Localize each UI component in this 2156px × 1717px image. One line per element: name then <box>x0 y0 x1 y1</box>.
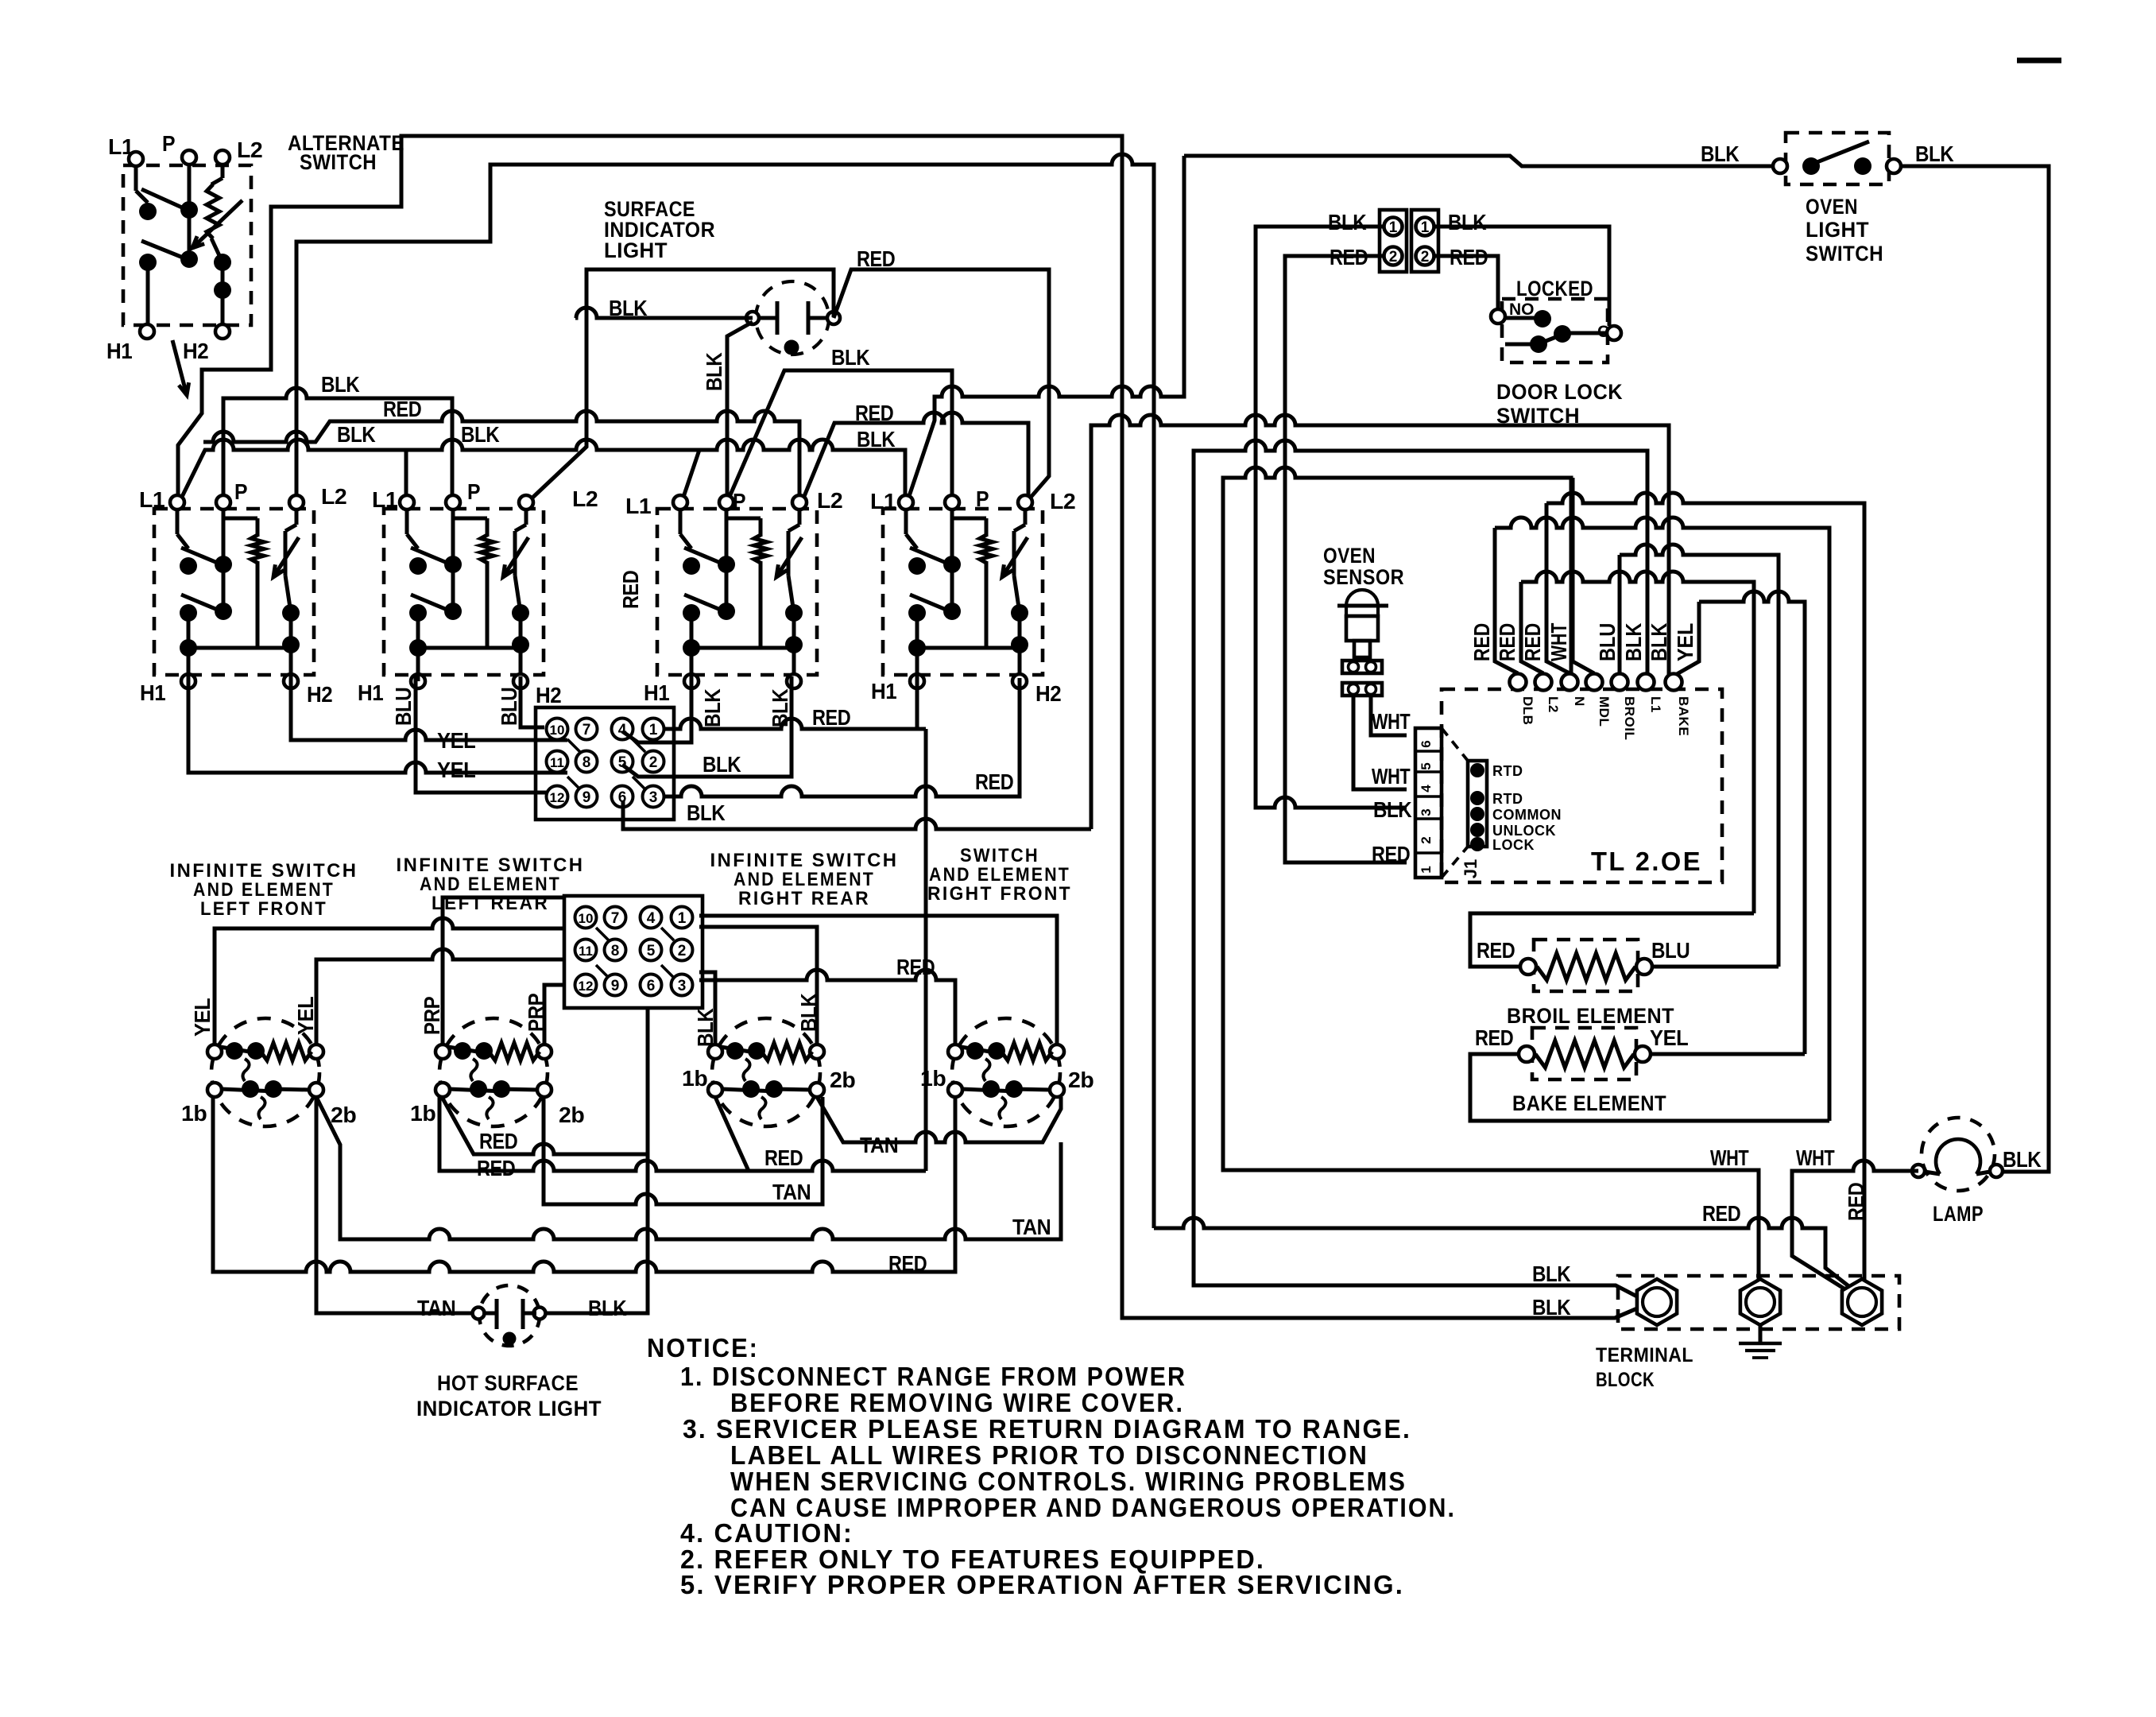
terminal C of S3 <box>1607 326 1621 340</box>
wire WHT row3 (board MDL pin to terminal block nut2) <box>1223 467 1759 1288</box>
wire L1 drop (SW2 (left rear surface switch)) <box>405 510 409 534</box>
wire H1 (SW2 (left rear surface switch)) <box>416 648 420 681</box>
svg-text:BEFORE REMOVING WIRE COVER.: BEFORE REMOVING WIRE COVER. <box>730 1388 1184 1417</box>
wire RED 1b bus (ISW2/ISW3 to H-net) <box>439 1097 926 1171</box>
contact dot a1 (SW-ALT) <box>139 203 157 220</box>
svg-text:RED: RED <box>1477 938 1515 963</box>
svg-text:BLU: BLU <box>1595 623 1620 661</box>
arrow pointing to surface switches <box>172 340 189 395</box>
svg-text:RED: RED <box>855 401 894 425</box>
terminal right of broil element <box>1636 959 1652 975</box>
svg-text:L1: L1 <box>625 494 651 518</box>
wire BLK J2A pin4 to H1 of SW3 <box>622 676 691 742</box>
switch blade of S3 <box>1534 334 1564 346</box>
bottom link2 (ISW3 (right rear)) <box>774 1089 811 1090</box>
svg-text:SWITCH: SWITCH <box>1806 242 1883 265</box>
svg-text:LOCK: LOCK <box>1492 837 1535 853</box>
wire resistor to H2 contact (SW-ALT) <box>211 238 223 262</box>
pin 1 of J2B <box>672 907 693 928</box>
svg-text:RED: RED <box>857 246 896 271</box>
connector J2 (surface switch harness upper) <box>536 707 674 820</box>
contact dot NC of S3 <box>1530 335 1547 353</box>
contact dot top2 (ISW3 (right rear)) <box>748 1042 765 1060</box>
thermal element (SW3 (right rear surface switch)) <box>787 531 791 576</box>
wire P drop (SW1 (left front surface switch)) <box>222 510 226 564</box>
wire TAN 2b bus (ISW1 to ISW4) <box>316 1097 1061 1239</box>
pin 2 of P1 left <box>1384 247 1403 265</box>
J1 strip pin LOCK <box>1470 837 1484 851</box>
infinite switch ISW3 (right rear) <box>712 1018 820 1126</box>
contact dot 6 (SW3 (right rear surface switch)) <box>785 636 803 653</box>
wire WHT seg2 (nut3 to lamp) <box>1792 1161 1918 1293</box>
svg-text:YEL: YEL <box>1673 623 1697 661</box>
electrode lead right of DS1 <box>808 316 828 320</box>
svg-text:RED: RED <box>1844 1182 1868 1221</box>
terminal P of SW1 (left front surface switch) <box>216 495 230 510</box>
contact dot bot1 (ISW2 (left rear)) <box>470 1080 487 1098</box>
svg-text:DLB: DLB <box>1520 696 1535 725</box>
wire L2 jog (SW1 (left front surface switch)) <box>285 525 296 531</box>
wire jog (SW1 (left front surface switch)) <box>177 534 188 548</box>
terminal P of SW-ALT <box>182 150 196 165</box>
wire YEL H2 of SW1 to J2A <box>291 676 567 740</box>
terminal stud N (TB1) <box>1740 1279 1780 1325</box>
terminal left of DS3 <box>473 1308 485 1320</box>
svg-text:LOCKED: LOCKED <box>1516 277 1593 300</box>
svg-text:H1: H1 <box>358 680 383 705</box>
pin 12 of J2B <box>575 975 597 996</box>
svg-text:3. SERVICER PLEASE RETURN DIAG: 3. SERVICER PLEASE RETURN DIAGRAM TO RAN… <box>683 1414 1411 1444</box>
wire to H2 (SW3 (right rear surface switch)) <box>792 645 796 674</box>
contact dot 5 (SW1 (left front surface switch)) <box>282 604 300 622</box>
svg-text:BLK: BLK <box>1647 623 1671 661</box>
pin 11 of J2A <box>547 751 568 773</box>
svg-text:LEFT REAR: LEFT REAR <box>432 893 549 914</box>
svg-text:BLK: BLK <box>1915 141 1954 166</box>
wire BLK P of SW1 to P of SW2 <box>223 388 452 503</box>
contact dot a3 (SW-ALT) <box>139 254 157 271</box>
element resistor (ISW2 (left rear)) <box>489 1043 540 1060</box>
resistor bottom lead (SW2 (left rear surface switch)) <box>486 561 490 648</box>
wire YEL ISW1-2a to J2B pin11 <box>316 949 566 1045</box>
svg-text:RED: RED <box>479 1129 518 1153</box>
thermal hook bottom (ISW4 (right front)) <box>999 1097 1005 1119</box>
terminal block TB1 box <box>1618 1276 1899 1329</box>
svg-text:10: 10 <box>550 723 565 738</box>
svg-text:P: P <box>467 479 480 504</box>
svg-text:L2: L2 <box>1546 696 1561 713</box>
contact dot 5 (SW3 (right rear surface switch)) <box>785 604 803 622</box>
contact dot bot2 (ISW1 (left front)) <box>265 1080 282 1098</box>
J1 strip pin COMMON <box>1470 807 1484 821</box>
svg-text:RED: RED <box>764 1145 803 1170</box>
contact dot 1 (SW3 (right rear surface switch)) <box>683 557 700 575</box>
svg-text:WHT: WHT <box>1372 709 1411 734</box>
svg-text:LIGHT: LIGHT <box>604 238 668 262</box>
board pin BROIL <box>1612 674 1628 691</box>
glow dot of DS3 <box>503 1332 517 1346</box>
contact dot top1 (ISW3 (right rear)) <box>726 1042 744 1060</box>
wire L2 jog (SW3 (right rear surface switch)) <box>788 525 799 531</box>
thermal to contact (SW1 (left front surface switch)) <box>285 576 291 613</box>
svg-text:BLK: BLK <box>700 688 725 727</box>
element resistor (ISW1 (left front)) <box>261 1043 312 1060</box>
thermal hook bottom (ISW3 (right rear)) <box>759 1097 765 1119</box>
terminal P of SW2 (left rear surface switch) <box>446 495 460 510</box>
wire WHT sensor to J1-6 <box>1371 696 1407 735</box>
svg-text:YEL: YEL <box>190 998 215 1037</box>
resistor R-ALT (pilot) <box>207 184 219 238</box>
connector P1 housing left <box>1380 210 1407 272</box>
pin 9 of J2A <box>576 786 598 808</box>
contact dot 6 (SW1 (left front surface switch)) <box>282 636 300 653</box>
terminal stud L1 (TB1) <box>1637 1279 1677 1325</box>
terminal H1 of SW1 (left front surface switch) <box>181 674 195 688</box>
wire L2 drop (SW4 (right front surface switch)) <box>1024 510 1028 525</box>
contact dot top1 (ISW1 (left front)) <box>226 1042 243 1060</box>
lamp lead left <box>1925 1172 1940 1174</box>
pin 10 of J2B <box>575 907 597 928</box>
terminal 1b of ISW1 (left front) <box>207 1083 222 1097</box>
svg-text:BLU: BLU <box>497 688 521 726</box>
svg-text:LAMP: LAMP <box>1933 1202 1984 1226</box>
svg-text:2b: 2b <box>559 1103 584 1127</box>
svg-text:SWITCH: SWITCH <box>300 150 377 174</box>
terminal 1b of ISW4 (right front) <box>948 1083 962 1097</box>
terminal 2b of ISW3 (right rear) <box>810 1083 824 1097</box>
wire H1 (SW3 (right rear surface switch)) <box>690 648 694 681</box>
wire contact link H2 (SW3 (right rear surface switch)) <box>792 613 796 645</box>
wire PRP ISW2-2a to J2B pin12 <box>544 985 566 1045</box>
svg-text:1: 1 <box>649 722 658 738</box>
wire L2 to resistor (SW-ALT) <box>211 178 223 184</box>
wire L2 elbow (SW-ALT) <box>221 165 225 178</box>
svg-text:H1: H1 <box>106 339 132 363</box>
pin 7 of J2A <box>576 719 598 740</box>
contact dot 3 (SW1 (left front surface switch)) <box>180 604 197 622</box>
wire to H2 (SW4 (right front surface switch)) <box>1018 645 1022 674</box>
wire PRP ISW2-1a to J2B <box>443 897 566 1045</box>
contact dot a2 (SW-ALT) <box>180 201 198 219</box>
wire jog (SW3 (right rear surface switch)) <box>680 534 691 548</box>
wire L2 drop (SW1 (left front surface switch)) <box>295 510 299 525</box>
wire BLU H1 of SW2 to J2A pin12 <box>416 676 547 793</box>
wire H1 (SW4 (right front surface switch)) <box>915 648 919 681</box>
wire BLK P of SW3 to P of SW4 <box>726 370 952 506</box>
wire TAN ISW3-2b to ISW4-2b <box>817 1097 1061 1142</box>
J1 fan-out dashed top <box>1442 728 1468 761</box>
wire P drop (SW4 (right front surface switch)) <box>950 510 954 564</box>
terminal 2a of ISW2 (left rear) <box>537 1045 552 1059</box>
wire contact to H1 (SW3 (right rear surface switch)) <box>690 613 694 648</box>
svg-text:RTD: RTD <box>1492 791 1523 807</box>
svg-text:BLK: BLK <box>461 422 500 447</box>
element resistor (ISW3 (right rear)) <box>761 1043 812 1060</box>
svg-text:RED: RED <box>1520 623 1545 661</box>
contact dot top1 (ISW2 (left rear)) <box>454 1042 471 1060</box>
plug B pin left <box>1349 684 1359 695</box>
contact dot top2 (ISW4 (right front)) <box>988 1042 1005 1060</box>
wire contact link H2 (SW4 (right front surface switch)) <box>1018 613 1022 645</box>
wire RED broil left lead <box>1470 913 1754 967</box>
svg-text:11: 11 <box>550 755 564 770</box>
bottom blade (ISW4 (right front)) <box>962 1089 1017 1091</box>
svg-text:1: 1 <box>1421 219 1430 236</box>
terminal left of lamp <box>1912 1165 1925 1177</box>
contact dot 4 (SW4 (right front surface switch)) <box>943 603 961 620</box>
svg-text:H1: H1 <box>140 680 165 705</box>
pilot resistor (SW4 (right front surface switch)) <box>980 535 993 563</box>
pin 3 of J2A <box>643 786 664 808</box>
wire RED J2A pin3 to H2 of SW4 <box>663 678 1020 796</box>
board pin N <box>1562 674 1578 691</box>
svg-text:HOT SURFACE: HOT SURFACE <box>437 1371 579 1395</box>
svg-text:OVEN: OVEN <box>1806 195 1858 219</box>
resistor top lead (SW4 (right front surface switch)) <box>985 518 989 537</box>
contact dot bot1 (ISW4 (right front)) <box>982 1080 1000 1098</box>
resistor bottom link (SW2 (left rear surface switch)) <box>418 646 487 650</box>
contact dot C of S3 <box>1554 325 1571 343</box>
pin 4 of J2B <box>641 907 662 928</box>
terminal 2a of ISW4 (right front) <box>1050 1045 1064 1059</box>
thermal element (SW4 (right front surface switch)) <box>1012 531 1016 576</box>
wire RED bake left lead <box>1470 1054 1829 1121</box>
wire contact to H1 (SW2 (left rear surface switch)) <box>416 613 420 648</box>
thermal to contact (SW3 (right rear surface switch)) <box>788 576 794 613</box>
bottom link2 (ISW2 (left rear)) <box>501 1089 538 1090</box>
svg-text:1. DISCONNECT RANGE FROM POWER: 1. DISCONNECT RANGE FROM POWER <box>680 1362 1186 1391</box>
svg-text:7: 7 <box>583 722 591 738</box>
wire RED row7 (L2 pin riser to broil element RED) <box>1521 572 1754 913</box>
alternate switch SW-ALT box <box>123 165 251 325</box>
terminal H2 of SW2 (left rear surface switch) <box>513 674 528 688</box>
switch blade lower (SW3 (right rear surface switch)) <box>684 595 728 613</box>
wire YEL bake right lead <box>1651 1052 1805 1056</box>
plug A pin right <box>1366 662 1376 672</box>
contact dot a6 (SW-ALT) <box>214 281 231 299</box>
oven sensor plug half A <box>1342 661 1382 673</box>
terminal P of SW4 (right front surface switch) <box>945 495 959 510</box>
wire RED row5 (DLB riser to bake element RED) <box>1495 517 1829 1121</box>
wire L1 drop (SW3 (right rear surface switch)) <box>679 510 683 534</box>
svg-text:SWITCH: SWITCH <box>960 845 1039 866</box>
wire BLK pin6 J2 to BAKE (row) <box>1091 415 1669 829</box>
wire BLK to pin1 P1 (down to J1-3) <box>1256 227 1407 808</box>
contact dot 3 (SW2 (left rear surface switch)) <box>409 604 427 622</box>
wire 1b ISW4 drop <box>954 1097 958 1272</box>
pin 2 of P1 right <box>1416 247 1434 265</box>
wire RED bottom row (L2 supply to nut3) <box>1154 1218 1855 1291</box>
svg-text:L2: L2 <box>817 488 842 513</box>
svg-text:WHT: WHT <box>1796 1145 1835 1170</box>
svg-text:6: 6 <box>1419 740 1434 747</box>
terminal right of DS1 <box>827 312 840 324</box>
switch blade upper (SW-ALT) <box>141 189 191 211</box>
wire BLK ISW3-1a to J2B pin3 <box>699 972 715 1045</box>
board pin MDL <box>1586 674 1603 691</box>
contact dot 4 (SW3 (right rear surface switch)) <box>718 603 735 620</box>
wire RED ISW4-1a to J2B pin3 row <box>699 970 955 1045</box>
svg-text:RED: RED <box>975 769 1014 794</box>
terminal H1 of SW3 (right rear surface switch) <box>684 674 699 688</box>
svg-text:RED: RED <box>383 397 422 421</box>
thermal hook top (ISW4 (right front)) <box>983 1059 989 1081</box>
svg-text:BLK: BLK <box>1328 210 1367 234</box>
svg-text:6: 6 <box>647 978 656 994</box>
thermal element (SW1 (left front surface switch)) <box>284 531 288 576</box>
wire jog (SW-ALT) <box>136 191 148 203</box>
electrode lead left of DS1 <box>759 316 777 320</box>
wire BLK ISW3-2a to J2B pin1 <box>699 927 817 1045</box>
svg-text:L2: L2 <box>572 486 598 511</box>
svg-text:2: 2 <box>678 943 687 959</box>
plug B pin right <box>1366 684 1376 695</box>
svg-text:P: P <box>976 486 989 511</box>
wire contact to H1 (SW1 (left front surface switch)) <box>187 613 191 648</box>
svg-text:L1: L1 <box>870 489 896 514</box>
svg-text:BLK: BLK <box>703 752 741 777</box>
svg-text:YEL: YEL <box>293 996 318 1035</box>
svg-text:2b: 2b <box>331 1103 356 1127</box>
svg-text:L1: L1 <box>139 487 165 512</box>
pin 10 of J2A <box>547 719 568 740</box>
wire YEL row8 (BAKE feed to bake element YEL) <box>1699 591 1805 1054</box>
svg-text:BLK: BLK <box>1532 1262 1571 1286</box>
terminal 2b of ISW1 (left front) <box>309 1083 323 1097</box>
pin 8 of J2B <box>605 940 626 961</box>
electrode left of DS3 <box>495 1299 499 1329</box>
wire BLK top rect (DS1 right terminal to L2 of SW2) <box>531 269 834 499</box>
pin 1 of P1 right <box>1416 218 1434 236</box>
connector J2 (surface switch harness lower) <box>564 896 703 1008</box>
svg-text:2: 2 <box>649 754 658 771</box>
wire BLU H2 of SW2 to J2A pin10 <box>521 676 544 727</box>
terminal L2 of SW3 (right rear surface switch) <box>792 495 807 510</box>
hot surface indicator light DS3 <box>479 1285 540 1346</box>
infinite switch ISW4 (right front) <box>952 1018 1060 1126</box>
svg-text:RED: RED <box>896 955 935 979</box>
switch blade lower (SW2 (left rear surface switch)) <box>411 595 455 613</box>
top blade (ISW1 (left front)) <box>220 1047 259 1053</box>
svg-text:BAKE ELEMENT: BAKE ELEMENT <box>1512 1091 1666 1115</box>
pin 6 of J2B <box>641 975 662 996</box>
wire branch to L1 of SW2 <box>404 450 408 503</box>
pin 7 of J2B <box>605 907 626 928</box>
door lock switch S3 box <box>1502 299 1608 362</box>
wire BLK DS3 to J2B pin6 <box>546 1008 648 1313</box>
ground bar 3 <box>1752 1356 1768 1359</box>
board pin L1 <box>1638 674 1655 691</box>
wire BLK from DS1 left terminal <box>727 322 753 504</box>
wire L2 jog (SW4 (right front surface switch)) <box>1014 525 1025 531</box>
svg-text:LIGHT: LIGHT <box>1806 218 1869 242</box>
svg-text:BAKE: BAKE <box>1676 696 1691 736</box>
wire YEL H1 of SW1 to J2A <box>188 676 567 773</box>
svg-text:INFINITE SWITCH: INFINITE SWITCH <box>710 850 899 871</box>
wire BLK DS1 left lead <box>575 308 753 318</box>
resistor bottom link (SW3 (right rear surface switch)) <box>691 646 761 650</box>
svg-text:BLU: BLU <box>391 688 416 726</box>
svg-text:4: 4 <box>1419 785 1434 793</box>
svg-text:WHT: WHT <box>1710 1145 1749 1170</box>
J1 cell divider y=945 <box>1415 750 1442 753</box>
svg-text:H2: H2 <box>536 683 561 707</box>
svg-text:WHEN SERVICING CONTROLS. WIRIN: WHEN SERVICING CONTROLS. WIRING PROBLEMS <box>730 1467 1407 1496</box>
switch blade upper (SW1 (left front surface switch)) <box>181 548 225 566</box>
svg-text:L2: L2 <box>1050 489 1075 514</box>
switch blade lower (SW-ALT) <box>141 241 191 261</box>
terminal NO of S3 <box>1491 309 1505 324</box>
svg-text:H1: H1 <box>871 679 896 703</box>
contact dot bot1 (ISW3 (right rear)) <box>742 1080 760 1098</box>
thermal element (SW2 (left rear surface switch)) <box>513 531 517 576</box>
pin 8 of J2A <box>576 751 598 773</box>
resistor top link (SW3 (right rear surface switch)) <box>726 517 761 521</box>
pin 5 of J2A <box>612 751 633 773</box>
pin 2 of J2B <box>672 940 693 961</box>
svg-text:TL 2.OE: TL 2.OE <box>1591 847 1702 876</box>
svg-text:9: 9 <box>611 978 620 994</box>
svg-text:SWITCH: SWITCH <box>1496 404 1580 428</box>
surface switch SW2 (left rear surface switch) box <box>384 509 544 675</box>
svg-text:H2: H2 <box>1035 681 1061 706</box>
bottom link (SW3 (right rear surface switch)) <box>761 646 794 650</box>
svg-text:RED: RED <box>1702 1201 1741 1226</box>
thermal hook bottom (ISW1 (left front)) <box>258 1097 265 1119</box>
svg-text:3: 3 <box>1419 808 1434 816</box>
element resistor (ISW4 (right front)) <box>1001 1043 1052 1060</box>
oven sensor plug half B <box>1342 683 1382 696</box>
terminal H2 of SW-ALT <box>215 324 230 339</box>
junction dot H1 (SW2 (left rear surface switch)) <box>409 639 427 657</box>
contact dot 5 (SW2 (left rear surface switch)) <box>512 604 529 622</box>
wire RED into N pin <box>1546 503 1570 673</box>
wire TAN ISW1-2b to hot surface light <box>316 1097 472 1313</box>
pilot resistor (SW3 (right rear surface switch)) <box>754 535 767 563</box>
wire WHT sensor to J1-4 <box>1353 696 1407 789</box>
junction dot H1 (SW4 (right front surface switch)) <box>908 639 926 657</box>
pin 5 of J2B <box>641 940 662 961</box>
junction dot H1 (SW1 (left front surface switch)) <box>180 639 197 657</box>
surface indicator light DS1 <box>756 281 829 355</box>
board pin DLB <box>1510 674 1527 691</box>
terminal left of broil element <box>1520 959 1536 975</box>
svg-text:TAN: TAN <box>860 1133 898 1157</box>
svg-text:2: 2 <box>1389 249 1398 265</box>
contact dot bot2 (ISW3 (right rear)) <box>765 1080 783 1098</box>
contact dot NO of S3 <box>1534 310 1551 328</box>
broil element box <box>1534 940 1638 991</box>
wire BLK row2 (board L1 pin to terminal block) <box>1194 440 1647 1296</box>
svg-text:2b: 2b <box>1068 1068 1093 1092</box>
lamp filament loop <box>1936 1139 1980 1174</box>
terminal 2b of ISW4 (right front) <box>1050 1083 1064 1097</box>
terminal right of lamp <box>1990 1165 2003 1177</box>
terminal L2 of SW1 (left front surface switch) <box>289 495 304 510</box>
svg-text:1: 1 <box>1389 219 1398 236</box>
terminal L1 of SW3 (right rear surface switch) <box>673 495 687 510</box>
top blade (ISW3 (right rear)) <box>721 1047 760 1053</box>
pin 6 of J2A <box>612 786 633 808</box>
svg-text:YEL: YEL <box>1650 1025 1689 1050</box>
wire RED into L2 pin <box>1521 582 1543 673</box>
contact dot a5 (SW-ALT) <box>214 254 231 271</box>
pin 9 of J2B <box>605 975 626 996</box>
thermal hook bottom (ISW2 (left rear)) <box>486 1097 493 1119</box>
svg-text:INFINITE SWITCH: INFINITE SWITCH <box>397 855 585 876</box>
terminal H1 of SW2 (left rear surface switch) <box>411 674 425 688</box>
J1 strip pin UNLOCK <box>1470 823 1484 837</box>
